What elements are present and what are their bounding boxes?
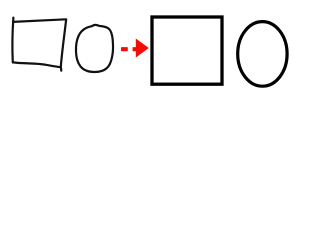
clean ellipse <box>238 22 287 87</box>
red dashed arrow shaft <box>121 47 137 51</box>
hand-drawn rectangle (sketchy quadrilateral) <box>12 18 66 71</box>
clean rectangle <box>152 17 222 84</box>
red arrowhead <box>136 39 149 58</box>
hand-drawn ellipse (sketchy circle) <box>76 25 113 72</box>
